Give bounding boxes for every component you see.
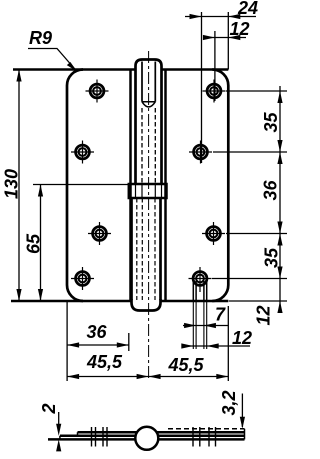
2 dim arrows <box>56 424 61 436</box>
side view knuckle circle <box>135 427 158 450</box>
36 dimension line <box>67 344 129 346</box>
7 arrows outside <box>184 323 196 328</box>
lower knuckle walls <box>130 198 133 300</box>
right edge bottom extension <box>227 306 229 381</box>
hidden pin hole upper knuckle <box>141 108 143 183</box>
36 arrows <box>67 342 79 347</box>
svg-text:35: 35 <box>262 247 282 268</box>
45,5 right arrows <box>149 374 161 379</box>
3,2 leader line <box>241 394 243 428</box>
side view step <box>77 432 79 436</box>
R9 leader <box>28 49 77 72</box>
svg-text:65: 65 <box>24 233 44 254</box>
svg-text:R9: R9 <box>29 28 52 48</box>
45,5 dimension line right <box>149 376 229 378</box>
bottom edge right segment <box>161 300 229 303</box>
svg-text:45,5: 45,5 <box>168 355 205 375</box>
svg-text:12: 12 <box>254 305 274 325</box>
hole R2 <box>189 141 212 164</box>
top edge right segment <box>162 68 229 71</box>
collar joint <box>129 184 167 198</box>
hole L2 <box>71 141 94 164</box>
side view right end cap <box>244 429 246 440</box>
left plate inner edge <box>129 70 132 302</box>
12 top dimension line <box>203 37 246 39</box>
svg-text:130: 130 <box>2 169 22 199</box>
slot extension lines <box>193 301 206 349</box>
hole L4 <box>71 267 94 290</box>
side view middle line <box>60 435 245 438</box>
right dimension line <box>279 86 281 310</box>
side view left end cap <box>59 436 61 440</box>
130 arrows <box>16 70 21 82</box>
right plate inner edge <box>164 70 167 302</box>
right extension lines <box>212 91 287 301</box>
svg-text:7: 7 <box>215 305 226 325</box>
slot edges <box>193 281 206 301</box>
12 bottom dimension line <box>182 345 250 347</box>
svg-text:3,2: 3,2 <box>219 390 239 415</box>
7 dimension line <box>183 325 228 327</box>
65 arrows <box>38 185 43 197</box>
svg-text:45,5: 45,5 <box>86 352 123 372</box>
12 top arrows <box>203 35 215 40</box>
3,2 arrow <box>240 417 245 429</box>
hole L1 <box>86 80 109 103</box>
R9 arrowhead <box>67 62 77 72</box>
vertical centerline <box>148 51 150 380</box>
12 bottom arrows outside <box>181 343 193 348</box>
24 arrows <box>190 14 202 19</box>
65 extension line <box>33 184 129 186</box>
svg-text:35: 35 <box>261 111 281 132</box>
side view hole marks left <box>92 427 108 447</box>
upper knuckle tube <box>136 60 162 185</box>
65 dimension line <box>40 185 42 302</box>
top edge left segment <box>13 68 136 71</box>
right dim arrows <box>277 91 282 103</box>
pin tip <box>142 102 155 107</box>
45,5 dimension line left <box>67 376 149 378</box>
svg-text:12: 12 <box>230 19 250 39</box>
top extension lines <box>202 12 229 163</box>
side view hidden top line <box>168 428 245 430</box>
hole R4 with slot <box>189 267 212 292</box>
svg-text:24: 24 <box>237 0 258 18</box>
hole L3 <box>88 222 111 245</box>
svg-text:2: 2 <box>39 403 59 414</box>
side view top leaf line <box>78 431 245 434</box>
svg-text:12: 12 <box>232 328 252 348</box>
130 dimension line <box>18 70 20 302</box>
collar internal lines <box>136 184 162 198</box>
hidden pin hole lower knuckle <box>136 198 138 300</box>
pin sides <box>141 62 143 102</box>
36 right extension line <box>128 333 130 351</box>
right plate outer edge with rounded corners <box>212 70 228 302</box>
lower knuckle bottom cap <box>132 299 161 311</box>
hole R3 <box>202 222 225 245</box>
svg-text:36: 36 <box>87 322 108 342</box>
45,5 left arrows <box>67 374 79 379</box>
bottom-left extension line <box>66 301 68 381</box>
left plate outer edge with rounded corners <box>67 70 83 302</box>
side view bottom line <box>48 438 245 441</box>
24 dimension line <box>185 16 256 18</box>
side view hole marks right <box>193 427 216 447</box>
bottom edge left segment <box>11 300 132 303</box>
2 dimension line <box>58 412 60 429</box>
svg-text:36: 36 <box>261 179 281 200</box>
hole R1 <box>203 80 226 103</box>
